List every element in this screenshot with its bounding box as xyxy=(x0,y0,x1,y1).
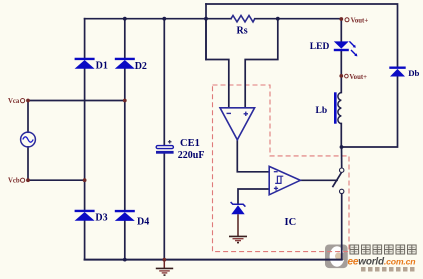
wire switch blade xyxy=(333,173,341,186)
wire junction to switch top contact xyxy=(341,147,343,168)
wire source top xyxy=(27,101,29,133)
svg-text:CE1: CE1 xyxy=(180,138,200,149)
svg-text:D4: D4 xyxy=(137,217,149,228)
junction dots (maroon) xyxy=(83,99,167,262)
diode Db xyxy=(389,68,419,78)
wire Vcb node to bridge xyxy=(28,179,85,181)
svg-text:D3: D3 xyxy=(95,212,107,223)
node Vout+ second: dot, circle, label xyxy=(339,74,343,78)
svg-text:D2: D2 xyxy=(135,61,147,72)
wire top outer line xyxy=(206,4,398,67)
wire main top bus left segment xyxy=(85,18,231,20)
svg-text:Lb: Lb xyxy=(316,106,328,116)
wire coil to switch junction xyxy=(340,124,342,148)
svg-text:Db: Db xyxy=(408,68,419,78)
AC source xyxy=(21,132,36,147)
terminal Vout+ top xyxy=(26,99,30,103)
wire zener to ground (maroon) xyxy=(237,214,239,236)
watermark slogan row xyxy=(361,267,415,272)
wire source bottom xyxy=(27,147,29,180)
svg-text:Rs: Rs xyxy=(237,26,248,37)
bottom bus xyxy=(85,259,342,261)
hysteresis glyph xyxy=(275,176,283,183)
wire main top bus right segment xyxy=(255,18,341,20)
node Vout+ top: dot, circle, label xyxy=(339,17,343,21)
wire left sense tap xyxy=(205,4,207,60)
watermark eeworld logo box xyxy=(325,245,348,269)
wire D2 column upper xyxy=(124,19,126,58)
wire D1 column middle to Vcb node xyxy=(84,68,86,181)
wire comparator plus to zener xyxy=(238,189,269,204)
wire D2 column middle xyxy=(124,68,126,210)
wire switch bottom contact to bus xyxy=(341,194,343,260)
wire CE1 column upper xyxy=(163,19,165,146)
diode D3 xyxy=(75,211,108,224)
svg-text:Vca: Vca xyxy=(8,98,20,105)
zener diode Dz xyxy=(231,202,246,214)
wire D1 column upper xyxy=(84,19,86,58)
switch S1 contacts xyxy=(340,168,344,172)
watermark chinese title row xyxy=(350,245,416,254)
ground (main, below bus) xyxy=(156,260,173,275)
svg-text:D1: D1 xyxy=(96,61,108,72)
wire CE1 column lower xyxy=(163,154,165,260)
wire LED to coil xyxy=(340,51,342,93)
wire comparator output xyxy=(300,179,337,181)
junction dots (navy) xyxy=(123,17,344,262)
wire Vca node to bridge xyxy=(28,100,125,102)
wire D3 to bottom bus xyxy=(84,219,86,259)
resistor Rs xyxy=(231,16,255,22)
diode D2 xyxy=(115,59,147,72)
comparator IC xyxy=(269,166,300,227)
svg-text:eeworld.com.cn: eeworld.com.cn xyxy=(348,256,416,267)
wire D3 column lower xyxy=(84,180,86,210)
ground (IC internal) xyxy=(229,236,247,242)
LED xyxy=(310,41,358,56)
svg-text:Vout+: Vout+ xyxy=(351,17,369,24)
IC boundary red dashed box xyxy=(213,85,350,252)
wire LED column top xyxy=(340,19,342,42)
wire Db anode to corner and left to Lb junction xyxy=(342,76,398,147)
svg-text:Vcb: Vcb xyxy=(8,178,20,185)
svg-text:220uF: 220uF xyxy=(178,150,205,161)
op-amp U1 xyxy=(220,108,255,140)
svg-text:IC: IC xyxy=(285,217,297,228)
diode D1 xyxy=(75,59,108,72)
svg-text:LED: LED xyxy=(310,42,330,52)
capacitor CE1 xyxy=(156,138,204,161)
terminal Vcb xyxy=(8,178,30,185)
inductor Lb coil xyxy=(316,92,342,123)
diode D4 xyxy=(115,211,149,227)
wire op-amp output to comparator minus xyxy=(237,140,269,172)
wire right sense tap xyxy=(245,19,278,108)
wire D4 to bottom bus xyxy=(124,220,126,260)
svg-text:Vout+: Vout+ xyxy=(349,74,367,81)
terminal Vca xyxy=(8,98,25,105)
